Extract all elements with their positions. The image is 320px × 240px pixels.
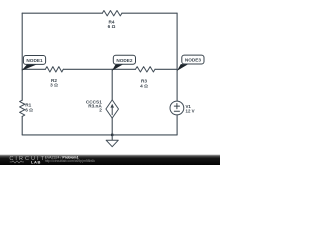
svg-text:NODE3: NODE3 bbox=[185, 58, 202, 63]
svg-text:LAB: LAB bbox=[31, 159, 41, 164]
svg-text:NODE2: NODE2 bbox=[116, 58, 133, 63]
wire left rail upper bbox=[21, 13, 23, 69]
wire R3 to node3 bbox=[155, 68, 177, 70]
svg-text:NODE1: NODE1 bbox=[26, 58, 43, 63]
wire CCCS1 to bottom rail bbox=[111, 118, 113, 135]
node NODE3 label bbox=[182, 55, 204, 64]
resistor R1 bbox=[20, 100, 25, 116]
svg-text:3 Ω: 3 Ω bbox=[50, 83, 58, 88]
wire R2 to node2 bbox=[63, 68, 112, 70]
svg-text:2: 2 bbox=[99, 107, 102, 112]
resistor R3 bbox=[136, 67, 156, 72]
ground stem bbox=[111, 135, 113, 140]
junction dot bottom bbox=[111, 134, 113, 136]
node NODE1 label bbox=[23, 56, 45, 65]
node NODE1 pointer bbox=[22, 64, 37, 70]
svg-text:http://circuitlab.com/c69pjm98: http://circuitlab.com/c69pjm98b6k bbox=[45, 159, 96, 163]
wire node3 to V1 bbox=[176, 69, 178, 101]
voltage source V1 bbox=[170, 101, 184, 115]
wire right rail upper bbox=[176, 13, 178, 69]
svg-text:6 Ω: 6 Ω bbox=[108, 24, 116, 29]
ground bbox=[106, 140, 118, 147]
V1 minus sign bbox=[174, 110, 179, 112]
footer logo resistor squiggle bbox=[10, 161, 24, 163]
wire top rail left bbox=[22, 12, 102, 14]
resistor R4 bbox=[102, 11, 122, 16]
node NODE2 label bbox=[113, 55, 135, 64]
wire node2 drop to CCCS1 bbox=[111, 69, 113, 100]
V1 plus sign bbox=[174, 104, 179, 109]
svg-text:4 Ω: 4 Ω bbox=[140, 83, 148, 88]
wire node2 to R3 bbox=[112, 68, 135, 70]
svg-text:12 V: 12 V bbox=[186, 108, 195, 113]
resistor R2 bbox=[45, 67, 63, 72]
wire bottom rail bbox=[22, 134, 177, 136]
footer bar bbox=[0, 155, 220, 165]
wire node1 to R2 bbox=[22, 68, 45, 70]
wire left rail to R1 bbox=[21, 69, 23, 100]
node NODE2 pointer bbox=[112, 64, 123, 71]
CCCS1 arrow bbox=[111, 107, 113, 115]
current source CCCS1 diamond bbox=[106, 100, 119, 118]
node NODE3 pointer bbox=[177, 64, 188, 71]
wire top rail right bbox=[122, 12, 177, 14]
svg-text:6 Ω: 6 Ω bbox=[25, 107, 33, 112]
wire R1 to bottom rail bbox=[21, 116, 23, 134]
wire V1 to bottom rail bbox=[176, 115, 178, 135]
